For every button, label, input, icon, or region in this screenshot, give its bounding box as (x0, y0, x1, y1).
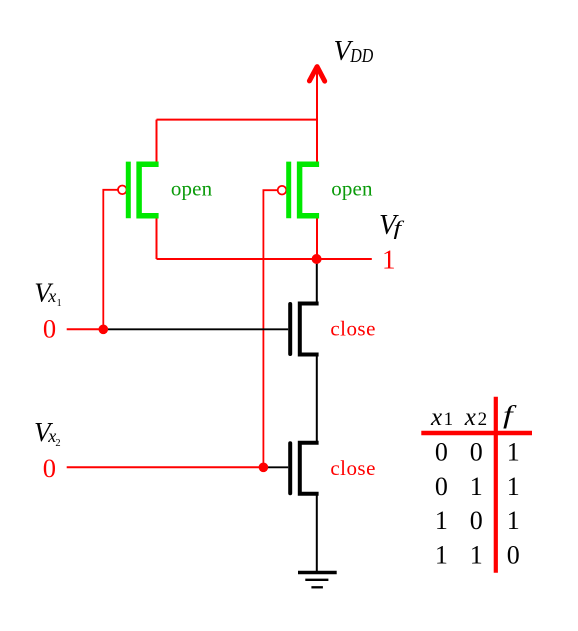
node x1 junction (99, 325, 109, 335)
wire Q3 source to Q4 drain (316, 355, 318, 445)
svg-text:2: 2 (55, 438, 60, 449)
table header x2 (464, 404, 487, 431)
svg-text:1: 1 (444, 409, 454, 430)
label V_x2 (34, 417, 61, 449)
wire x1 to Q1 gate (103, 190, 118, 329)
table rule horizontal (421, 431, 532, 435)
svg-text:DD: DD (349, 45, 373, 67)
transistor Q1 PMOS (128, 162, 158, 219)
label V_DD (334, 36, 374, 67)
table row 2: 0 1 1 (435, 472, 520, 501)
transistor Q4 NMOS (290, 443, 318, 494)
svg-text:0: 0 (43, 453, 56, 483)
wire Q2 drain down to output (316, 216, 318, 259)
transistor Q3 NMOS (290, 304, 318, 355)
svg-text:2: 2 (478, 409, 488, 430)
label V_f (379, 210, 404, 241)
table row 3: 1 0 1 (435, 506, 520, 535)
svg-text:1: 1 (507, 506, 520, 535)
svg-text:open: open (331, 177, 373, 201)
wire output horizontal (157, 258, 372, 260)
power VDD arrow (309, 67, 324, 120)
wire x2 to Q4 gate (263, 466, 288, 468)
svg-text:close: close (330, 456, 375, 480)
table row 4: 1 1 0 (435, 541, 520, 570)
svg-text:0: 0 (435, 438, 448, 467)
svg-text:x: x (464, 404, 476, 431)
wire V_x1 input (67, 328, 104, 330)
table row 1: 0 0 1 (435, 438, 520, 467)
svg-text:1: 1 (470, 541, 483, 570)
wire V_x2 input (67, 466, 264, 468)
svg-text:x: x (430, 404, 442, 431)
svg-text:1: 1 (470, 472, 483, 501)
ground (298, 573, 337, 588)
svg-text:0: 0 (470, 506, 483, 535)
svg-text:1: 1 (57, 298, 62, 309)
svg-text:1: 1 (507, 438, 520, 467)
svg-text:0: 0 (507, 541, 520, 570)
svg-text:1: 1 (435, 506, 448, 535)
svg-text:0: 0 (43, 314, 56, 344)
wire VDD rail horizontal (157, 119, 318, 121)
svg-text:0: 0 (435, 472, 448, 501)
node output junction (312, 254, 322, 264)
svg-text:close: close (330, 317, 375, 341)
wire PMOS Q1 source to VDD rail (156, 120, 158, 165)
svg-text:1: 1 (382, 245, 396, 275)
svg-text:open: open (171, 177, 213, 201)
svg-text:0: 0 (470, 438, 483, 467)
gate bubble Q2 (278, 186, 287, 195)
node x2 junction (259, 463, 269, 473)
svg-text:1: 1 (435, 541, 448, 570)
wire x2 to Q2 gate (263, 190, 277, 467)
wire Q4 source to ground (316, 494, 318, 573)
wire x1 to Q3 gate (104, 328, 288, 330)
label V_x1 (34, 277, 61, 309)
svg-text:x: x (47, 286, 56, 306)
svg-text:1: 1 (507, 472, 520, 501)
table rule vertical (494, 397, 498, 573)
transistor Q2 PMOS (289, 162, 319, 219)
gate bubble Q1 (118, 186, 127, 195)
wire Q1 drain down to output (156, 216, 158, 259)
table header x1 (430, 404, 453, 431)
wire output node to Q3 drain (316, 259, 318, 305)
wire VDD to PMOS Q2 source (316, 120, 318, 165)
